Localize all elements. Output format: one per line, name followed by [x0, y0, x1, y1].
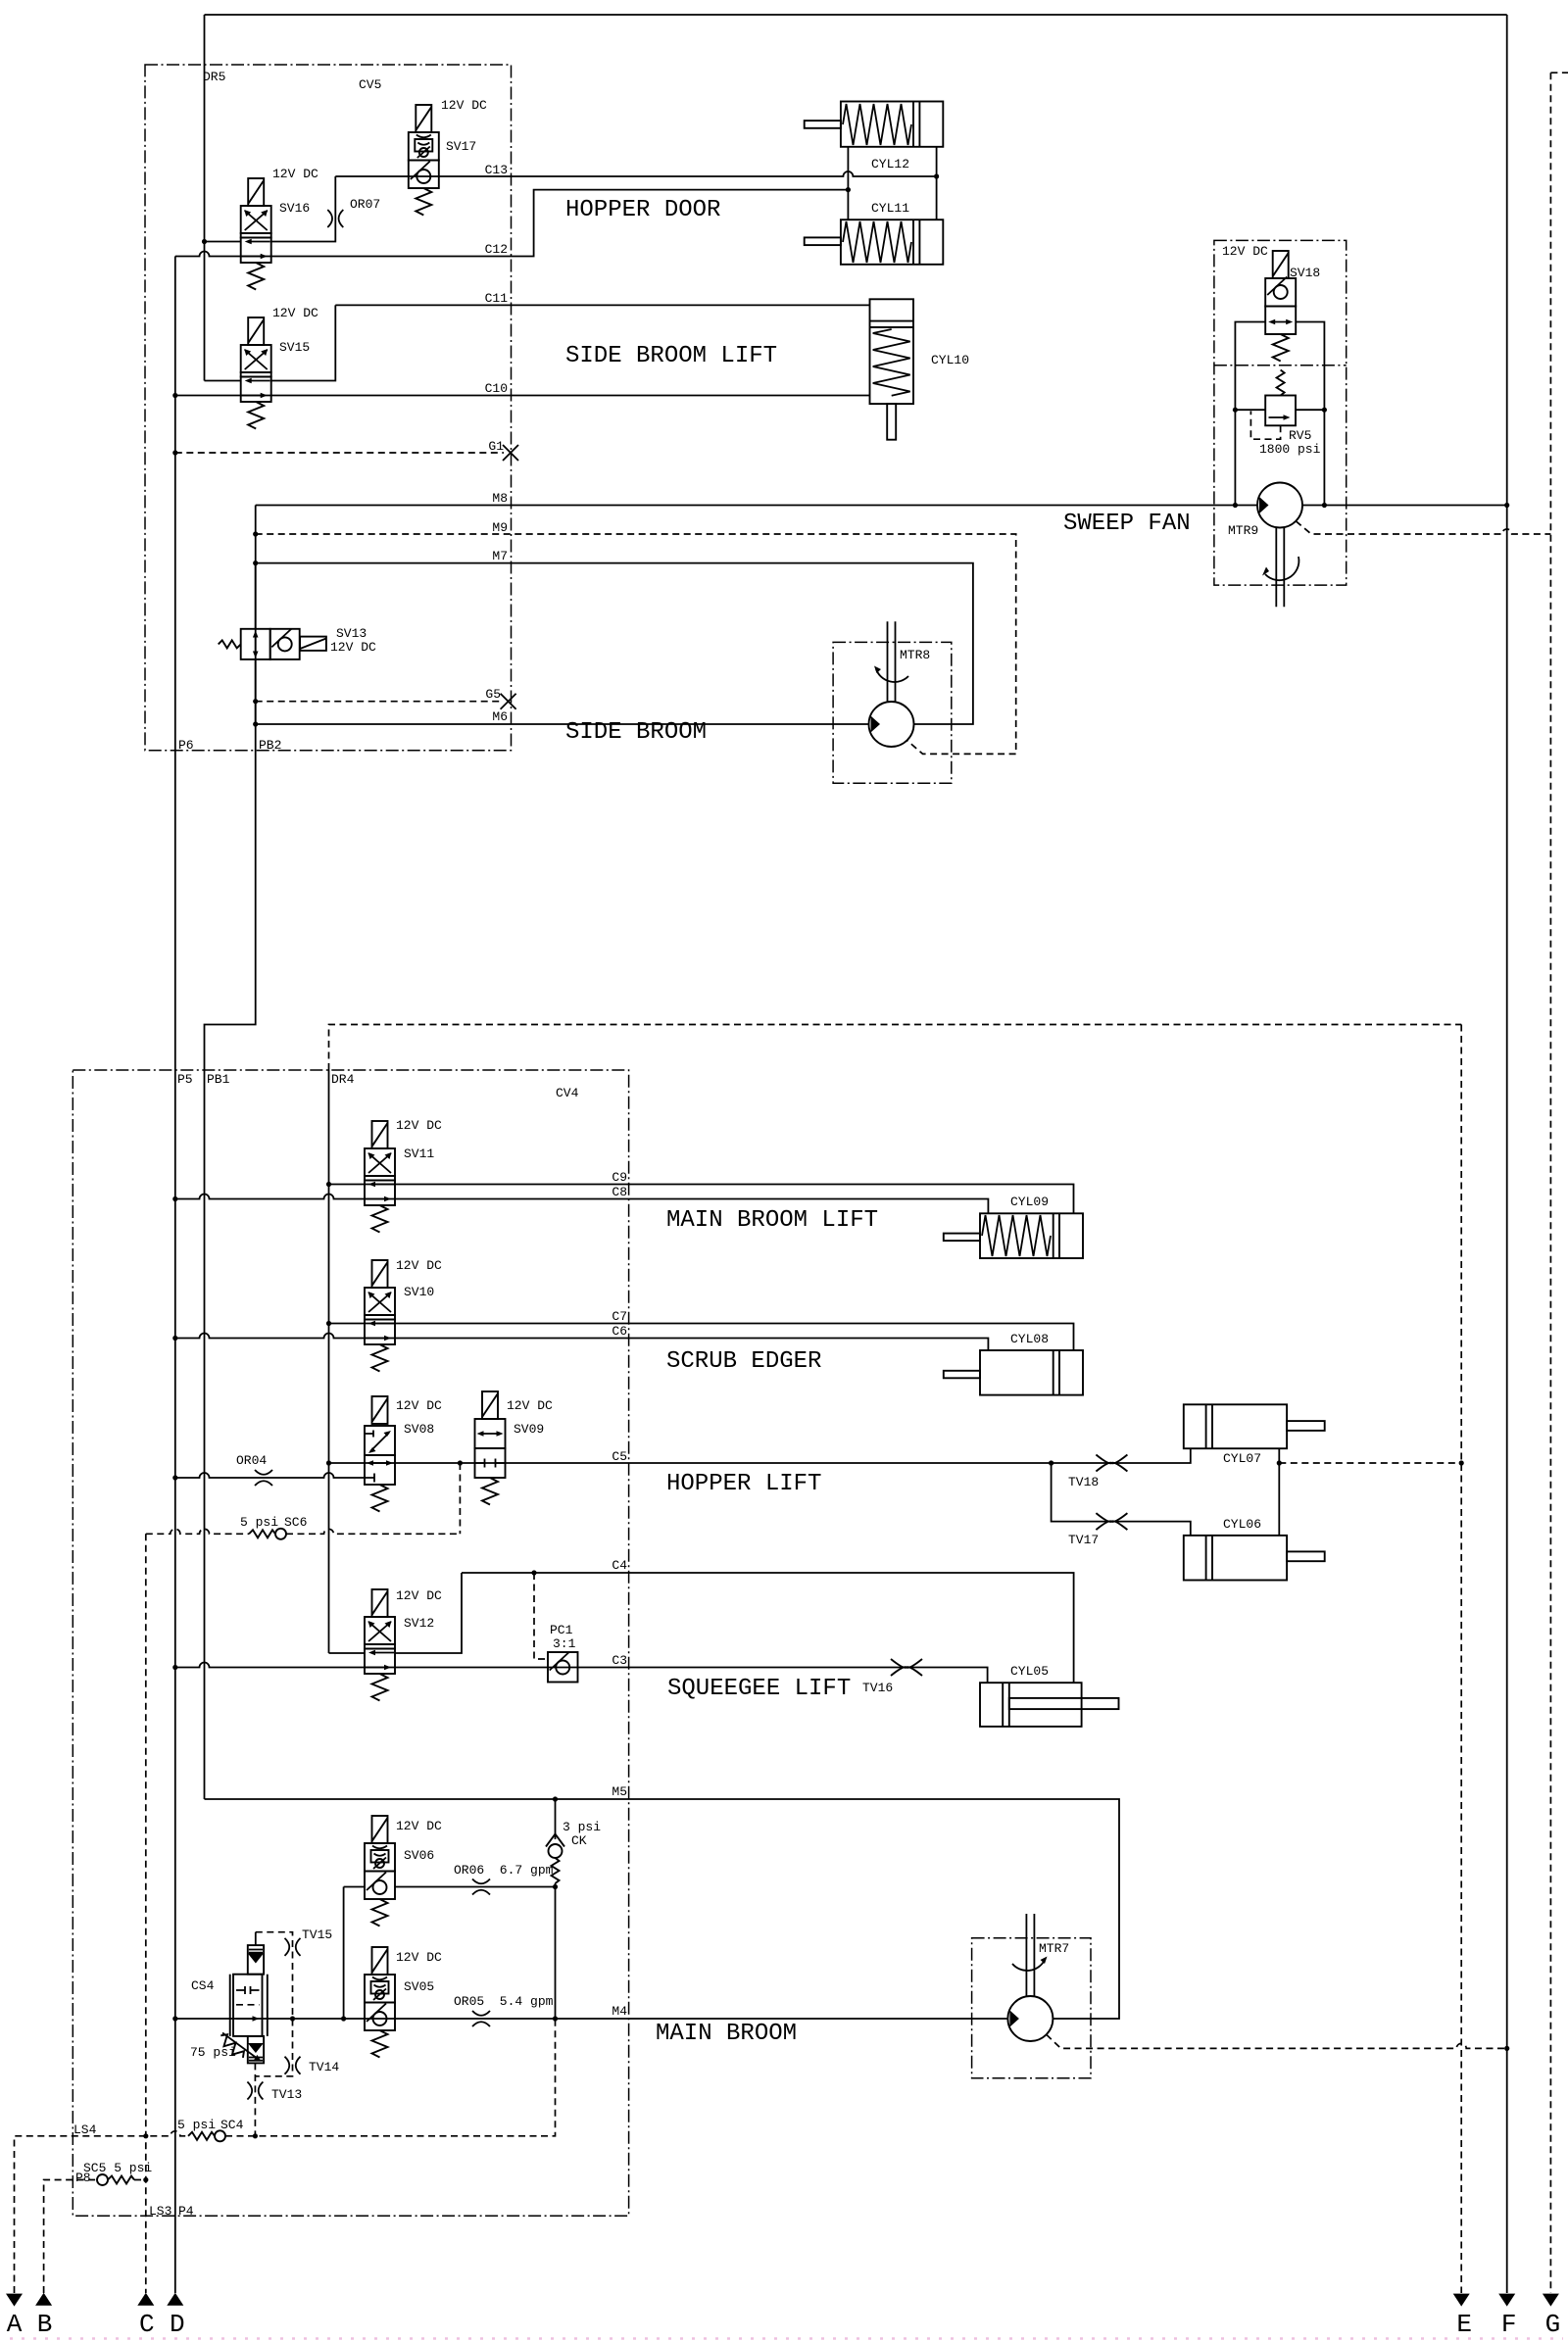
svg-text:SV08: SV08	[404, 1422, 434, 1437]
wire C8 with jumps	[175, 1195, 989, 1214]
enclosure sweep fan box	[1214, 240, 1347, 585]
node drain at E	[1459, 1460, 1464, 1465]
wire SV13 bottom port	[255, 659, 257, 724]
svg-text:HOPPER DOOR: HOPPER DOOR	[565, 197, 720, 223]
wire OR06 line	[344, 1886, 556, 1888]
node MTR7 drain at F	[1504, 2046, 1509, 2051]
port arrow B	[35, 2293, 52, 2306]
node MTR9 left leg	[1233, 503, 1238, 508]
svg-text:P6: P6	[178, 738, 194, 753]
svg-text:SV10: SV10	[404, 1285, 434, 1299]
node G1 junction	[172, 450, 177, 455]
node cylinder drain tap	[1277, 1460, 1282, 1465]
svg-text:MTR8: MTR8	[900, 648, 930, 662]
svg-text:SV05: SV05	[404, 1979, 434, 1994]
svg-text:12V DC: 12V DC	[272, 167, 318, 181]
rotation arrow MTR9	[1265, 557, 1298, 580]
svg-text:M5: M5	[612, 1784, 627, 1799]
wire P6/P5/P4 pressure vertical	[174, 257, 176, 2294]
svg-text:3:1: 3:1	[553, 1636, 576, 1651]
cylinder CYL10	[870, 299, 914, 439]
node LS4 at LS3	[143, 2133, 148, 2138]
svg-text:TV15: TV15	[302, 1927, 332, 1942]
svg-text:C13: C13	[485, 163, 508, 177]
spill check SC4	[188, 2132, 215, 2140]
wire right supply vertical F	[1506, 15, 1508, 2293]
svg-text:P8: P8	[75, 2171, 91, 2185]
svg-text:HOPPER LIFT: HOPPER LIFT	[666, 1471, 821, 1497]
wire LS3 dashed vertical	[145, 1534, 147, 2293]
node sweep fan to F line	[1504, 503, 1509, 508]
svg-text:CYL06: CYL06	[1223, 1517, 1261, 1532]
port arrow D	[167, 2293, 183, 2306]
wire C5	[329, 1448, 1191, 1463]
svg-text:P4: P4	[178, 2204, 194, 2219]
wire M9 dashed	[256, 534, 1016, 754]
rotation arrow MTR8	[876, 669, 908, 682]
wire SV13 top port	[255, 563, 257, 629]
wire SV18 left leg	[1235, 322, 1265, 506]
svg-text:C4: C4	[612, 1558, 627, 1573]
node SV16 supply junction	[202, 239, 207, 244]
enclosure dashed drain box top edge	[329, 1025, 1462, 1071]
svg-text:5 psi: 5 psi	[240, 1515, 278, 1530]
node M5 CK junction	[553, 1796, 558, 1801]
svg-text:C9: C9	[612, 1170, 627, 1185]
valve SV12	[365, 1589, 395, 1701]
svg-text:C3: C3	[612, 1653, 627, 1668]
wire cylinder pair left link	[847, 147, 849, 220]
wire SV06 leg to M4	[343, 1887, 345, 2020]
node C3 junction	[172, 1665, 177, 1670]
svg-text:TV16: TV16	[862, 1681, 893, 1695]
shaft MTR8	[888, 621, 896, 702]
wire CK leg to M4	[555, 1887, 557, 2020]
svg-text:G1: G1	[488, 439, 504, 454]
wire M8 sweep fan line	[256, 505, 1507, 507]
wire SV15 right port riser to C11	[271, 305, 336, 380]
orifice OR07	[327, 210, 343, 227]
port arrow A	[6, 2294, 23, 2307]
svg-text:CYL05: CYL05	[1010, 1664, 1049, 1679]
enclosure DR5/CV5 manifold box	[145, 65, 512, 751]
svg-text:OR06 6.7 gpm: OR06 6.7 gpm	[454, 1863, 554, 1878]
needle valve TV17	[1096, 1513, 1127, 1530]
wire M8 corner feed	[255, 505, 257, 507]
wire LS4 dashed	[15, 2131, 189, 2293]
wire P8 to LS3	[134, 2179, 146, 2181]
svg-text:CYL09: CYL09	[1010, 1195, 1049, 1209]
svg-text:SCRUB EDGER: SCRUB EDGER	[666, 1348, 821, 1375]
node M4 SV06 leg	[341, 2016, 346, 2021]
shaft MTR9	[1276, 527, 1284, 607]
wire G dashed top stub	[1550, 72, 1568, 73]
svg-text:M9: M9	[492, 520, 508, 535]
node OR06 at CK	[553, 1884, 558, 1889]
svg-text:12V DC: 12V DC	[441, 98, 487, 113]
svg-text:12V DC: 12V DC	[1222, 244, 1268, 259]
svg-text:PB1: PB1	[207, 1072, 230, 1087]
svg-text:TV14: TV14	[309, 2060, 339, 2074]
needle valve TV18	[1096, 1455, 1127, 1472]
relief valve RV5	[1233, 370, 1327, 440]
orifice TV15	[285, 1938, 301, 1956]
wire PB2 vertical with jog to PB1	[205, 506, 256, 1800]
wire SV16 left port to supply	[205, 241, 241, 243]
wire TV17 branch	[1052, 1463, 1191, 1536]
svg-text:OR07: OR07	[350, 197, 380, 212]
svg-text:SC6: SC6	[284, 1515, 307, 1530]
enclosure DR4/CV4 manifold box	[73, 1070, 628, 2216]
wire G1 gauge dashed	[175, 452, 504, 454]
svg-text:CV4: CV4	[556, 1086, 579, 1100]
svg-text:G5: G5	[485, 687, 501, 702]
svg-text:M6: M6	[492, 709, 508, 724]
valve SV18	[1265, 251, 1296, 362]
svg-text:MTR9: MTR9	[1228, 523, 1258, 538]
wire SV12 left port	[329, 1652, 366, 1654]
plug G5 X	[501, 694, 516, 709]
svg-text:D: D	[170, 2310, 185, 2339]
svg-text:TV13: TV13	[271, 2087, 302, 2102]
cylinder CYL07	[1184, 1404, 1325, 1448]
svg-text:SQUEEGEE LIFT: SQUEEGEE LIFT	[667, 1676, 851, 1702]
wire SC6 dashed right with jump	[286, 1529, 460, 1534]
svg-text:3 psi: 3 psi	[563, 1820, 601, 1834]
node C5 TV17 tap	[1049, 1460, 1053, 1465]
node M4 pilot crossing	[290, 2016, 295, 2021]
pilot line PC1 dashed	[534, 1573, 548, 1659]
node LS4 at TV13	[253, 2133, 258, 2138]
svg-text:LS3: LS3	[149, 2204, 171, 2219]
pilot drop TV13 dashed	[254, 2063, 256, 2135]
motor MTR7	[1007, 1996, 1053, 2041]
valve SV11	[365, 1121, 395, 1233]
node M4 CK leg	[553, 2016, 558, 2021]
spill check SC5	[97, 2174, 108, 2185]
svg-text:G: G	[1545, 2310, 1561, 2339]
port arrow F	[1498, 2294, 1515, 2307]
wire left supply vertical from top border to SV15	[204, 15, 206, 381]
valve SV08	[365, 1396, 395, 1512]
enclosure sweep fan divider	[1214, 365, 1347, 366]
node C12 at cylinder	[846, 187, 851, 192]
port arrow E	[1453, 2294, 1470, 2307]
port arrow C	[137, 2293, 154, 2306]
node M9 junction	[253, 531, 258, 536]
svg-text:M4: M4	[612, 2004, 627, 2019]
svg-text:DR4: DR4	[331, 1072, 355, 1087]
node C5 supply junction	[326, 1460, 331, 1465]
cylinder CYL08	[944, 1350, 1083, 1395]
wire M7	[256, 563, 973, 724]
svg-text:SV18: SV18	[1290, 266, 1320, 280]
motor MTR8	[869, 702, 914, 747]
cylinder CYL11	[805, 220, 944, 265]
node C10 junction	[172, 393, 177, 398]
wire C4	[462, 1573, 1074, 1683]
node P8 at LS3	[143, 2177, 148, 2182]
enclosure MTR7 box	[972, 1938, 1091, 2078]
svg-text:RV5: RV5	[1289, 428, 1311, 443]
svg-text:SV16: SV16	[279, 201, 310, 216]
svg-text:E: E	[1456, 2310, 1472, 2339]
wire C6 with jumps	[175, 1334, 989, 1351]
node C13 at cylinder	[934, 173, 939, 178]
sequence valve CS4	[217, 1945, 267, 2063]
svg-text:SV06: SV06	[404, 1848, 434, 1863]
orifice TV13	[247, 2082, 263, 2100]
enclosure MTR8 box	[833, 642, 952, 783]
orifice TV14	[285, 2057, 301, 2074]
svg-text:12V DC: 12V DC	[396, 1819, 442, 1833]
valve SV09	[475, 1391, 506, 1505]
svg-text:5 psi: 5 psi	[177, 2118, 216, 2132]
wire SC6 riser dashed	[459, 1463, 461, 1534]
svg-text:PC1: PC1	[550, 1623, 573, 1637]
svg-text:C11: C11	[485, 291, 509, 306]
svg-text:A: A	[7, 2310, 23, 2339]
drain dashed to E line	[1279, 1462, 1461, 1464]
spill check SC6	[249, 1530, 275, 1537]
svg-text:12V DC: 12V DC	[396, 1588, 442, 1603]
motor MTR9	[1257, 483, 1302, 528]
valve SV16	[241, 178, 271, 290]
svg-text:TV18: TV18	[1068, 1475, 1099, 1489]
drain MTR7 dashed to F	[1047, 2034, 1507, 2048]
wire P8 dashed	[44, 2180, 97, 2294]
svg-text:CYL12: CYL12	[871, 157, 909, 171]
svg-text:SV12: SV12	[404, 1616, 434, 1631]
svg-text:C12: C12	[485, 242, 508, 257]
svg-text:C6: C6	[612, 1324, 627, 1339]
node C8 junction	[172, 1196, 177, 1201]
node OR04 junction	[172, 1475, 177, 1480]
svg-text:SV13: SV13	[336, 626, 367, 641]
wire SV18 right leg	[1296, 322, 1324, 506]
node C6 junction	[172, 1336, 177, 1341]
svg-text:OR05 5.4 gpm: OR05 5.4 gpm	[454, 1994, 554, 2009]
orifice OR04	[255, 1470, 272, 1486]
svg-text:CK: CK	[571, 1833, 587, 1848]
svg-text:C: C	[139, 2310, 155, 2339]
svg-text:MTR7: MTR7	[1039, 1941, 1069, 1956]
check CK 3psi	[546, 1799, 564, 1887]
port arrow G	[1543, 2294, 1559, 2307]
svg-text:TV17: TV17	[1068, 1533, 1099, 1547]
wire C12 with jump over supply	[175, 190, 849, 257]
needle valve TV16	[891, 1659, 922, 1676]
wire C13	[335, 171, 936, 176]
svg-text:SIDE BROOM: SIDE BROOM	[565, 719, 707, 746]
svg-text:CV5: CV5	[359, 77, 381, 92]
rotation arrow MTR7	[1012, 1960, 1045, 1971]
cylinder CYL06	[1184, 1536, 1325, 1581]
valve SV06	[365, 1816, 395, 1927]
svg-text:SV09: SV09	[514, 1422, 544, 1437]
wire cylinder link CYL07-CYL06	[1278, 1448, 1280, 1536]
svg-text:SV15: SV15	[279, 340, 310, 355]
svg-text:OR04: OR04	[236, 1453, 267, 1468]
svg-text:12V DC: 12V DC	[507, 1398, 553, 1413]
svg-text:SIDE BROOM LIFT: SIDE BROOM LIFT	[565, 343, 777, 369]
svg-text:M7: M7	[492, 549, 508, 563]
wire G5 dashed	[256, 701, 501, 703]
orifice OR06	[472, 1879, 490, 1895]
node M4 pressure junction	[172, 2016, 177, 2021]
wire LS4 dashed right to M4	[225, 2019, 556, 2136]
svg-text:P5: P5	[177, 1072, 193, 1087]
node M6 junction	[253, 721, 258, 726]
wire top supply border	[205, 14, 1507, 16]
wire C11	[335, 304, 869, 306]
node C5 pilot tap	[458, 1460, 463, 1465]
svg-text:12V DC: 12V DC	[330, 640, 376, 655]
drain MTR9 dashed to G	[1296, 521, 1550, 534]
wire G dashed vertical	[1549, 73, 1551, 2293]
wire M4	[175, 2018, 1008, 2020]
svg-text:CYL10: CYL10	[931, 353, 969, 367]
svg-text:MAIN BROOM LIFT: MAIN BROOM LIFT	[666, 1207, 878, 1234]
plug G1 X	[503, 445, 518, 461]
valve SV17	[409, 105, 439, 216]
svg-text:SV17: SV17	[446, 139, 476, 154]
svg-text:75 psi: 75 psi	[190, 2045, 236, 2060]
node M7 junction	[253, 561, 258, 565]
svg-text:CYL11: CYL11	[871, 201, 909, 216]
svg-text:1800 psi: 1800 psi	[1259, 442, 1321, 457]
node C4 pilot tap	[531, 1570, 536, 1575]
svg-text:SWEEP FAN: SWEEP FAN	[1063, 511, 1191, 537]
page edge marker	[10, 2337, 1563, 2340]
wire E dashed vertical	[1460, 1025, 1462, 2294]
svg-text:12V DC: 12V DC	[272, 306, 318, 320]
pilot check PC1	[548, 1652, 578, 1683]
orifice OR05	[472, 2011, 490, 2026]
node G5 junction	[253, 699, 258, 704]
wire CV4 supply vertical DR4	[328, 1070, 330, 1653]
valve SV05	[365, 1947, 395, 2058]
node C7 supply junction	[326, 1321, 331, 1326]
svg-text:SV11: SV11	[404, 1147, 434, 1161]
svg-text:M8: M8	[492, 491, 508, 506]
svg-text:SC5 5 psi: SC5 5 psi	[83, 2161, 152, 2175]
wire M6	[256, 723, 869, 725]
svg-text:C10: C10	[485, 381, 508, 396]
wire C7	[329, 1324, 1074, 1351]
shaft MTR7	[1026, 1914, 1034, 1997]
svg-text:B: B	[37, 2310, 53, 2339]
svg-text:LS4: LS4	[73, 2122, 97, 2137]
svg-text:C8: C8	[612, 1185, 627, 1199]
pilot loop TV15/TV14 dashed	[255, 1932, 257, 1945]
wire SV12 right port riser to C4	[395, 1573, 462, 1653]
svg-text:CYL08: CYL08	[1010, 1332, 1049, 1346]
svg-text:CYL07: CYL07	[1223, 1451, 1261, 1466]
svg-text:DR5: DR5	[203, 70, 225, 84]
valve SV15	[241, 317, 271, 429]
cylinder CYL09	[944, 1213, 1083, 1258]
wire SC6 dashed with jumps	[146, 1529, 249, 1534]
svg-text:12V DC: 12V DC	[396, 1950, 442, 1965]
wire SV15 left port	[205, 380, 241, 382]
svg-text:12V DC: 12V DC	[396, 1398, 442, 1413]
svg-text:12V DC: 12V DC	[396, 1118, 442, 1133]
svg-text:CS4: CS4	[191, 1978, 215, 1993]
svg-text:F: F	[1501, 2310, 1517, 2339]
wire C3 with jump	[175, 1663, 988, 1683]
svg-text:C7: C7	[612, 1309, 627, 1324]
wire SV16 right port riser to C13	[271, 176, 336, 242]
cylinder CYL12	[805, 102, 944, 147]
cylinder CYL05	[980, 1683, 1119, 1727]
valve SV10	[365, 1260, 395, 1372]
svg-text:SC4: SC4	[220, 2118, 244, 2132]
wire C9	[329, 1185, 1074, 1214]
svg-text:PB2: PB2	[259, 738, 281, 753]
wire OR04 branch with jumps	[175, 1473, 365, 1478]
wire cylinder pair right link	[936, 147, 938, 220]
svg-text:MAIN BROOM: MAIN BROOM	[656, 2021, 797, 2047]
valve SV13	[219, 629, 326, 659]
node MTR9 right leg	[1322, 503, 1327, 508]
wire M5	[205, 1799, 1120, 2019]
node C9 supply junction	[326, 1182, 331, 1187]
svg-text:C5: C5	[612, 1449, 627, 1464]
svg-text:12V DC: 12V DC	[396, 1258, 442, 1273]
wire C10	[175, 395, 870, 397]
